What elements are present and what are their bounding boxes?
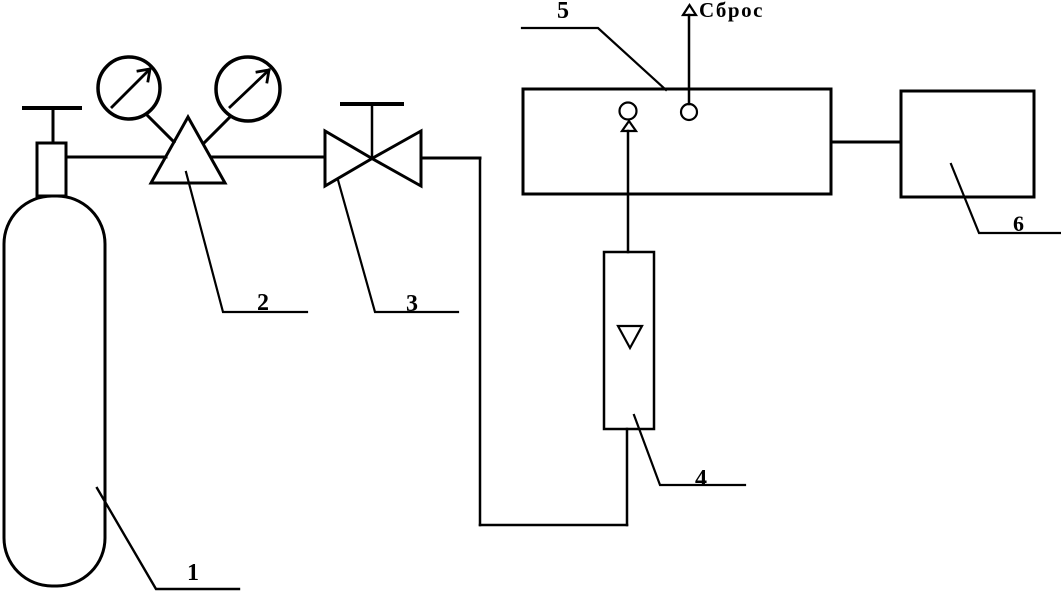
leader line 1 — [97, 488, 239, 589]
svg-text:1: 1 — [187, 560, 199, 586]
leader line 2 — [186, 172, 307, 312]
wire: vertical drop pipe — [479, 158, 482, 525]
valve 3 handle bar — [342, 102, 402, 106]
chamber 5 — [523, 89, 831, 194]
leader line 3 — [338, 180, 458, 312]
leader line 4 — [634, 415, 745, 485]
rotameter float — [618, 326, 642, 348]
gauge right needle — [230, 70, 269, 107]
cylinder valve stem — [52, 108, 55, 143]
gauge right — [216, 57, 280, 121]
svg-text:5: 5 — [557, 0, 569, 24]
gas cylinder 1 neck — [37, 143, 66, 196]
svg-text:Сброс: Сброс — [699, 0, 764, 22]
rotameter 4 — [604, 252, 654, 429]
svg-text:4: 4 — [695, 466, 707, 492]
leader line 5 — [522, 28, 666, 90]
gauge left needle — [112, 69, 150, 107]
gas cylinder 1 body — [4, 196, 105, 586]
wire: pipe regulator to valve — [211, 156, 325, 159]
link gauge right to regulator — [204, 118, 229, 143]
wire: rotameter to chamber inlet — [627, 131, 630, 252]
device 6 — [901, 91, 1034, 197]
wire: pipe valve to corner — [421, 157, 480, 160]
wire: pipe cylinder to regulator — [66, 156, 166, 159]
svg-text:6: 6 — [1013, 211, 1024, 236]
link gauge left to regulator — [148, 116, 174, 142]
gauge left — [98, 57, 160, 119]
vent arrow — [683, 5, 696, 15]
svg-text:3: 3 — [406, 291, 418, 317]
cylinder valve handle — [24, 106, 80, 110]
gauge right needle arrowhead — [257, 70, 269, 82]
vent port circle — [681, 104, 697, 120]
chamber inlet port circle — [620, 103, 637, 120]
wire: riser to rotameter — [626, 429, 629, 525]
svg-text:2: 2 — [257, 290, 269, 316]
wire: pipe chamber to device 6 — [831, 141, 901, 144]
gauge left needle arrowhead — [138, 69, 150, 81]
chamber inlet arrow — [622, 121, 636, 131]
wire: vent line — [688, 15, 691, 104]
valve 3 body bowtie — [325, 131, 421, 186]
valve 3 stem — [371, 104, 374, 158]
wire: bottom run pipe — [480, 524, 627, 527]
regulator 2 (triangle) — [151, 117, 225, 183]
leader line 6 — [951, 164, 1061, 233]
